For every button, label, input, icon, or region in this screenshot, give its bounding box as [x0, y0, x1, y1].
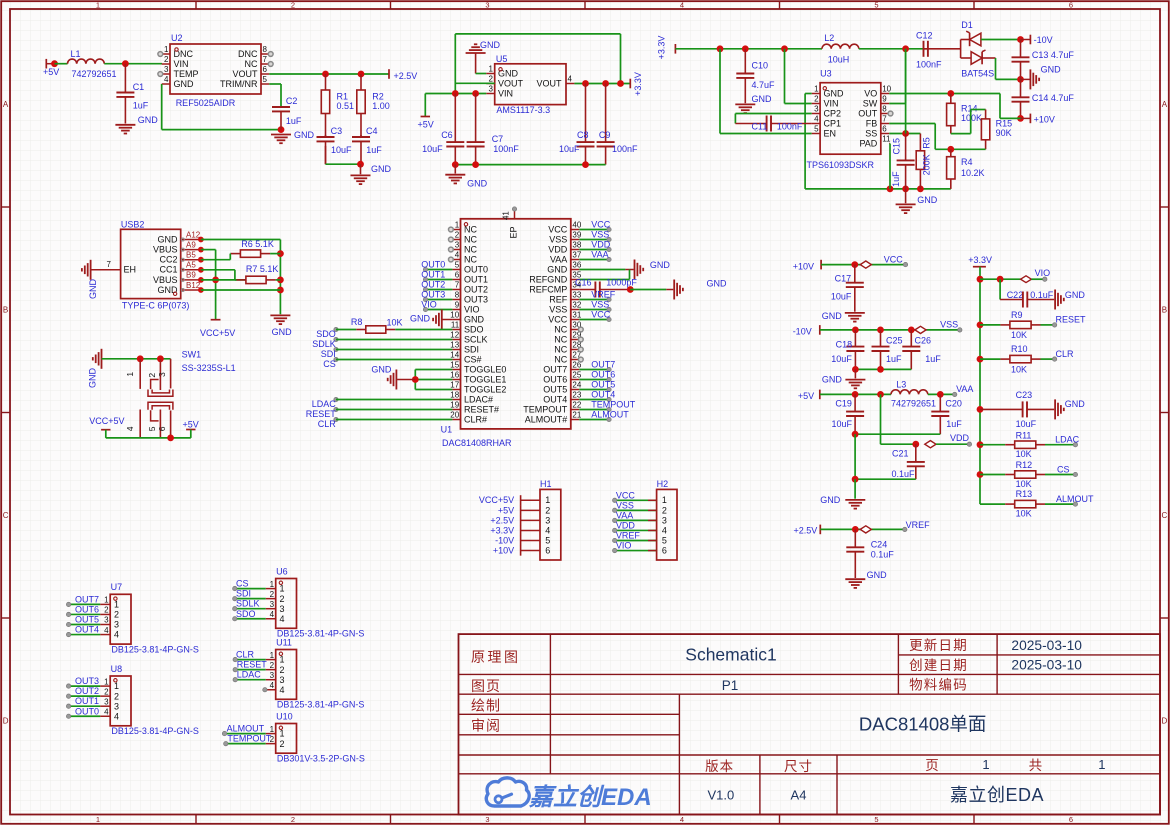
svg-text:B: B — [3, 306, 8, 315]
svg-text:1: 1 — [104, 677, 109, 686]
svg-text:3: 3 — [104, 697, 109, 706]
svg-text:2: 2 — [280, 594, 285, 604]
svg-text:10K: 10K — [1016, 449, 1032, 459]
svg-text:10uF: 10uF — [422, 144, 443, 154]
svg-text:C2: C2 — [286, 96, 298, 106]
svg-text:1000pF: 1000pF — [606, 278, 637, 288]
svg-text:C3: C3 — [331, 126, 343, 136]
svg-text:7: 7 — [263, 55, 268, 64]
svg-text:90K: 90K — [996, 128, 1012, 138]
svg-text:TEMPOUT: TEMPOUT — [591, 399, 636, 409]
svg-text:R11: R11 — [1016, 430, 1032, 440]
svg-text:CLR#: CLR# — [464, 414, 487, 424]
svg-text:1: 1 — [270, 651, 275, 660]
svg-text:7: 7 — [455, 281, 460, 290]
svg-text:OUT1: OUT1 — [75, 696, 99, 706]
svg-text:10: 10 — [882, 85, 891, 94]
svg-text:U2: U2 — [171, 33, 183, 43]
svg-text:+3.3V: +3.3V — [657, 36, 667, 60]
svg-text:A4: A4 — [791, 787, 807, 802]
svg-text:共: 共 — [1029, 758, 1043, 773]
svg-text:B9: B9 — [186, 271, 196, 280]
svg-text:GND: GND — [824, 88, 845, 98]
svg-text:GND: GND — [371, 164, 392, 174]
svg-text:3: 3 — [114, 701, 119, 711]
svg-text:VIO: VIO — [421, 299, 437, 309]
svg-text:OUT5: OUT5 — [75, 615, 99, 625]
svg-text:3: 3 — [157, 372, 167, 377]
svg-text:5: 5 — [545, 535, 550, 545]
svg-text:TRIM/NR: TRIM/NR — [220, 79, 258, 89]
svg-text:VREF: VREF — [906, 520, 931, 530]
svg-text:2: 2 — [104, 606, 109, 615]
svg-text:3: 3 — [164, 65, 169, 74]
svg-text:20: 20 — [450, 411, 459, 420]
svg-text:NC: NC — [554, 344, 567, 354]
svg-text:10: 10 — [450, 311, 459, 320]
svg-text:OUT3: OUT3 — [75, 676, 99, 686]
svg-text:R8: R8 — [351, 317, 363, 327]
svg-text:1uF: 1uF — [925, 354, 941, 364]
svg-text:36: 36 — [572, 261, 581, 270]
svg-text:7: 7 — [882, 115, 887, 124]
svg-text:VSS: VSS — [940, 319, 958, 329]
svg-text:R2: R2 — [372, 92, 384, 102]
svg-text:1: 1 — [662, 495, 667, 505]
svg-text:嘉立创EDA: 嘉立创EDA — [950, 785, 1044, 805]
svg-text:5: 5 — [874, 815, 878, 824]
svg-text:VBUS: VBUS — [153, 275, 178, 285]
svg-text:OUT7: OUT7 — [75, 594, 99, 604]
svg-text:REF5025AIDR: REF5025AIDR — [176, 98, 236, 108]
svg-text:C17: C17 — [835, 273, 852, 283]
svg-text:10uF: 10uF — [831, 292, 852, 302]
svg-text:ALMOUT: ALMOUT — [591, 409, 629, 419]
svg-text:+2.5V: +2.5V — [794, 525, 818, 535]
svg-text:ALMOUT: ALMOUT — [1056, 494, 1094, 504]
svg-text:L3: L3 — [896, 380, 906, 390]
svg-text:绘制: 绘制 — [471, 697, 501, 713]
svg-text:100nF: 100nF — [612, 144, 638, 154]
svg-text:742792651: 742792651 — [891, 399, 936, 409]
svg-text:23: 23 — [572, 391, 581, 400]
svg-text:22: 22 — [572, 401, 581, 410]
svg-text:21: 21 — [572, 411, 581, 420]
svg-text:+3.3V: +3.3V — [968, 255, 992, 265]
svg-text:VCC: VCC — [591, 309, 611, 319]
svg-text:GND: GND — [1065, 399, 1086, 409]
svg-text:C9: C9 — [599, 130, 611, 140]
svg-text:CLR: CLR — [1056, 349, 1075, 359]
svg-text:CC2: CC2 — [159, 255, 177, 265]
svg-text:11: 11 — [882, 135, 891, 144]
svg-text:NC: NC — [554, 354, 567, 364]
svg-text:REFGND: REFGND — [529, 274, 568, 284]
svg-text:1: 1 — [545, 495, 550, 505]
svg-text:1: 1 — [96, 815, 100, 824]
svg-text:原理图: 原理图 — [471, 649, 521, 665]
svg-text:R5: R5 — [922, 137, 932, 149]
svg-text:OUT4: OUT4 — [75, 625, 99, 635]
svg-text:页: 页 — [925, 758, 939, 773]
svg-text:5: 5 — [455, 261, 460, 270]
svg-text:GND: GND — [917, 195, 938, 205]
svg-text:1uF: 1uF — [366, 145, 382, 155]
svg-text:DAC81408RHAR: DAC81408RHAR — [442, 438, 512, 448]
svg-text:4: 4 — [270, 681, 275, 690]
svg-text:OUT0: OUT0 — [464, 264, 488, 274]
svg-text:2: 2 — [291, 1, 295, 10]
svg-text:TOGGLE1: TOGGLE1 — [464, 374, 506, 384]
svg-text:VAA: VAA — [956, 384, 973, 394]
svg-text:VSS: VSS — [616, 500, 634, 510]
svg-text:2: 2 — [280, 739, 285, 749]
svg-text:CS: CS — [1057, 464, 1070, 474]
svg-text:图页: 图页 — [471, 678, 501, 694]
svg-text:Schematic1: Schematic1 — [685, 645, 776, 665]
svg-text:SDI: SDI — [464, 344, 479, 354]
svg-text:CS: CS — [236, 579, 249, 589]
svg-text:NC: NC — [464, 254, 477, 264]
svg-text:C7: C7 — [492, 134, 504, 144]
svg-text:5: 5 — [662, 535, 667, 545]
svg-text:C14 4.7uF: C14 4.7uF — [1032, 93, 1075, 103]
svg-text:3: 3 — [489, 85, 494, 94]
svg-text:EN: EN — [824, 128, 837, 138]
svg-text:VOUT: VOUT — [536, 78, 562, 88]
svg-text:2: 2 — [270, 661, 275, 670]
svg-text:LDAC: LDAC — [237, 670, 262, 680]
svg-text:VDD: VDD — [591, 239, 611, 249]
svg-text:VIO: VIO — [464, 304, 480, 314]
svg-text:8: 8 — [263, 45, 268, 54]
svg-text:VO: VO — [864, 88, 877, 98]
svg-text:VIN: VIN — [174, 59, 189, 69]
svg-text:100nF: 100nF — [493, 144, 519, 154]
svg-text:NC: NC — [464, 244, 477, 254]
svg-text:2: 2 — [489, 75, 494, 84]
svg-text:1uF: 1uF — [286, 116, 302, 126]
svg-text:LDAC: LDAC — [1055, 435, 1080, 445]
svg-text:4: 4 — [104, 707, 109, 716]
svg-text:3: 3 — [270, 671, 275, 680]
svg-text:VBUS: VBUS — [153, 245, 178, 255]
svg-text:R12: R12 — [1016, 460, 1033, 470]
svg-text:版本: 版本 — [705, 759, 734, 774]
svg-text:GND: GND — [174, 79, 195, 89]
svg-text:OUT2: OUT2 — [421, 279, 445, 289]
svg-text:1uF: 1uF — [886, 354, 902, 364]
svg-text:L1: L1 — [71, 49, 81, 59]
svg-text:V1.0: V1.0 — [708, 787, 735, 802]
svg-text:ALMOUT: ALMOUT — [227, 724, 265, 734]
svg-text:CC1: CC1 — [159, 265, 177, 275]
svg-text:VCC: VCC — [884, 254, 904, 264]
svg-text:1: 1 — [164, 45, 169, 54]
svg-text:C23: C23 — [1016, 390, 1033, 400]
svg-text:DB301V-3.5-2P-GN-S: DB301V-3.5-2P-GN-S — [277, 754, 365, 764]
svg-text:9: 9 — [455, 301, 460, 310]
svg-text:GND: GND — [480, 40, 501, 50]
svg-text:32: 32 — [572, 301, 581, 310]
svg-text:GND: GND — [1041, 64, 1062, 74]
svg-text:C: C — [1162, 511, 1168, 520]
svg-text:2: 2 — [280, 665, 285, 675]
svg-text:37: 37 — [572, 251, 581, 260]
svg-text:R1: R1 — [337, 92, 349, 102]
svg-text:REFCMP: REFCMP — [529, 284, 567, 294]
svg-text:SDLK: SDLK — [312, 339, 336, 349]
svg-text:2: 2 — [455, 231, 460, 240]
svg-text:+3.3V: +3.3V — [633, 72, 643, 96]
svg-text:3: 3 — [485, 815, 489, 824]
svg-text:10uF: 10uF — [1016, 419, 1037, 429]
svg-text:C20: C20 — [945, 398, 962, 408]
svg-text:CLR: CLR — [318, 419, 337, 429]
svg-text:SW: SW — [863, 98, 878, 108]
svg-text:18: 18 — [450, 391, 459, 400]
svg-text:1: 1 — [270, 725, 275, 734]
svg-text:PAD: PAD — [859, 138, 877, 148]
svg-text:C13 4.7uF: C13 4.7uF — [1032, 50, 1075, 60]
svg-text:2: 2 — [545, 505, 550, 515]
svg-text:R4: R4 — [961, 157, 973, 167]
svg-text:B: B — [1162, 306, 1167, 315]
svg-text:0.1uF: 0.1uF — [1030, 290, 1054, 300]
svg-text:DNC: DNC — [238, 49, 258, 59]
svg-text:5: 5 — [263, 75, 268, 84]
svg-text:GND: GND — [707, 278, 728, 288]
svg-text:4.7uF: 4.7uF — [752, 80, 776, 90]
svg-text:OUT1: OUT1 — [464, 274, 488, 284]
svg-text:SDO: SDO — [464, 324, 484, 334]
svg-text:13: 13 — [450, 341, 459, 350]
svg-text:9: 9 — [882, 95, 887, 104]
svg-text:+5V: +5V — [498, 505, 514, 515]
svg-text:VDD: VDD — [950, 433, 970, 443]
svg-text:GND: GND — [272, 327, 293, 337]
svg-text:C15: C15 — [892, 138, 902, 155]
svg-text:VCC: VCC — [548, 224, 568, 234]
svg-text:EP: EP — [509, 226, 519, 238]
svg-text:3: 3 — [545, 515, 550, 525]
svg-text:TOGGLE0: TOGGLE0 — [464, 364, 506, 374]
svg-text:SDO: SDO — [316, 329, 336, 339]
svg-text:DAC81408单面: DAC81408单面 — [859, 713, 987, 734]
svg-text:LDAC: LDAC — [312, 399, 337, 409]
svg-text:VOUT: VOUT — [232, 69, 258, 79]
svg-text:10uF: 10uF — [831, 354, 852, 364]
svg-text:33: 33 — [572, 291, 581, 300]
svg-text:VSS: VSS — [591, 229, 609, 239]
svg-text:C10: C10 — [752, 60, 769, 70]
svg-text:OUT: OUT — [858, 108, 878, 118]
svg-text:16: 16 — [450, 371, 459, 380]
svg-text:15: 15 — [450, 361, 459, 370]
svg-text:C22: C22 — [1007, 290, 1024, 300]
svg-text:U3: U3 — [820, 69, 832, 79]
svg-text:VIN: VIN — [824, 98, 839, 108]
svg-text:0.1uF: 0.1uF — [892, 469, 916, 479]
svg-text:0.51: 0.51 — [337, 101, 355, 111]
svg-text:C: C — [3, 511, 9, 520]
svg-text:H2: H2 — [657, 479, 669, 489]
svg-text:TPS61093DSKR: TPS61093DSKR — [807, 160, 875, 170]
svg-text:OUT6: OUT6 — [75, 604, 99, 614]
svg-text:U7: U7 — [111, 582, 123, 592]
svg-text:TEMP: TEMP — [174, 69, 199, 79]
svg-text:物料编码: 物料编码 — [909, 677, 968, 692]
svg-text:1.00: 1.00 — [372, 101, 390, 111]
svg-text:4: 4 — [164, 75, 169, 84]
svg-text:2: 2 — [814, 95, 819, 104]
svg-text:GND: GND — [1065, 290, 1086, 300]
svg-text:GND: GND — [867, 570, 888, 580]
svg-text:4: 4 — [104, 626, 109, 635]
svg-text:VREF: VREF — [616, 531, 641, 541]
svg-text:3: 3 — [455, 241, 460, 250]
svg-text:R13: R13 — [1016, 489, 1033, 499]
svg-text:+10V: +10V — [1034, 114, 1055, 124]
svg-text:6: 6 — [1069, 815, 1073, 824]
svg-text:VCC: VCC — [616, 490, 636, 500]
svg-text:OUT6: OUT6 — [543, 374, 567, 384]
svg-text:CP2: CP2 — [824, 108, 842, 118]
svg-text:8: 8 — [882, 105, 887, 114]
svg-text:+2.5V: +2.5V — [394, 71, 418, 81]
svg-text:GND: GND — [822, 374, 843, 384]
svg-text:C8: C8 — [577, 130, 589, 140]
svg-text:6: 6 — [1069, 1, 1073, 10]
svg-text:SCLK: SCLK — [464, 334, 488, 344]
svg-text:38: 38 — [572, 241, 581, 250]
svg-text:VSS: VSS — [591, 299, 609, 309]
svg-text:4: 4 — [270, 610, 275, 619]
svg-text:17: 17 — [450, 381, 459, 390]
svg-text:R7 5.1K: R7 5.1K — [246, 264, 279, 274]
svg-text:100nF: 100nF — [777, 122, 803, 132]
svg-text:NC: NC — [245, 59, 258, 69]
svg-text:2: 2 — [147, 373, 157, 378]
svg-text:742792651: 742792651 — [72, 69, 117, 79]
svg-text:U6: U6 — [276, 566, 288, 576]
svg-text:C21: C21 — [892, 448, 909, 458]
svg-text:L2: L2 — [824, 33, 834, 43]
svg-text:D: D — [3, 717, 9, 726]
svg-text:GND: GND — [158, 285, 179, 295]
svg-text:31: 31 — [572, 311, 581, 320]
svg-text:VCC+5V: VCC+5V — [89, 416, 124, 426]
svg-text:BAT54S: BAT54S — [961, 69, 994, 79]
svg-text:嘉立创EDA: 嘉立创EDA — [528, 784, 652, 811]
svg-text:R15: R15 — [996, 119, 1013, 129]
svg-text:D1: D1 — [961, 20, 973, 30]
svg-text:C12: C12 — [916, 30, 933, 40]
svg-text:-10V: -10V — [793, 327, 812, 337]
svg-text:5: 5 — [814, 125, 819, 134]
svg-text:4: 4 — [280, 614, 285, 624]
svg-text:1: 1 — [814, 85, 819, 94]
svg-text:10.2K: 10.2K — [961, 168, 985, 178]
svg-text:2025-03-10: 2025-03-10 — [1011, 638, 1082, 653]
svg-text:8: 8 — [455, 291, 460, 300]
svg-text:3: 3 — [814, 105, 819, 114]
svg-text:VOUT: VOUT — [498, 78, 524, 88]
svg-text:4: 4 — [545, 525, 550, 535]
svg-text:ALMOUT#: ALMOUT# — [525, 414, 568, 424]
svg-text:A: A — [3, 100, 9, 109]
svg-text:RESET: RESET — [237, 660, 268, 670]
svg-text:+3.3V: +3.3V — [490, 525, 514, 535]
svg-text:GND: GND — [138, 115, 159, 125]
svg-text:4: 4 — [114, 630, 119, 640]
svg-text:40: 40 — [572, 221, 581, 230]
svg-text:+2.5V: +2.5V — [490, 515, 514, 525]
svg-text:尺寸: 尺寸 — [784, 759, 813, 774]
svg-text:DB125-3.81-4P-GN-S: DB125-3.81-4P-GN-S — [111, 726, 199, 736]
svg-text:10uF: 10uF — [559, 144, 580, 154]
svg-text:100nF: 100nF — [916, 59, 942, 69]
svg-text:OUT2: OUT2 — [75, 686, 99, 696]
svg-text:1uF: 1uF — [891, 171, 901, 187]
svg-text:OUT4: OUT4 — [543, 394, 567, 404]
svg-text:创建日期: 创建日期 — [909, 658, 968, 673]
svg-text:DB125-3.81-4P-GN-S: DB125-3.81-4P-GN-S — [277, 700, 365, 710]
svg-text:TYPE-C 6P(073): TYPE-C 6P(073) — [122, 301, 190, 311]
svg-text:GND: GND — [158, 234, 179, 244]
svg-text:1: 1 — [114, 600, 119, 610]
svg-text:12: 12 — [450, 331, 459, 340]
svg-text:2: 2 — [114, 691, 119, 701]
svg-text:7: 7 — [107, 260, 112, 269]
svg-text:0.1uF: 0.1uF — [871, 549, 895, 559]
svg-text:10uH: 10uH — [828, 55, 850, 65]
svg-text:1: 1 — [270, 580, 275, 589]
svg-text:2: 2 — [662, 505, 667, 515]
svg-text:C18: C18 — [836, 339, 853, 349]
svg-text:H1: H1 — [540, 479, 552, 489]
svg-text:SS: SS — [865, 128, 877, 138]
svg-text:10uF: 10uF — [832, 419, 853, 429]
svg-text:6: 6 — [882, 125, 887, 134]
svg-text:25: 25 — [572, 371, 581, 380]
svg-text:4: 4 — [680, 1, 684, 10]
svg-text:SDO: SDO — [236, 609, 256, 619]
svg-text:GND: GND — [752, 94, 773, 104]
svg-text:GND: GND — [294, 130, 315, 140]
svg-text:24: 24 — [572, 381, 581, 390]
svg-text:4: 4 — [455, 251, 460, 260]
svg-text:C24: C24 — [871, 540, 888, 550]
svg-text:2: 2 — [291, 815, 295, 824]
svg-text:OUT0: OUT0 — [75, 706, 99, 716]
svg-text:VIO: VIO — [616, 541, 632, 551]
svg-text:NC: NC — [464, 234, 477, 244]
svg-text:DNC: DNC — [174, 49, 194, 59]
svg-text:200K: 200K — [922, 154, 932, 175]
svg-text:VCC: VCC — [591, 219, 611, 229]
svg-text:GND: GND — [822, 311, 843, 321]
svg-text:AMS1117-3.3: AMS1117-3.3 — [496, 105, 550, 115]
svg-text:3: 3 — [662, 515, 667, 525]
svg-text:1: 1 — [489, 65, 494, 74]
svg-text:VDD: VDD — [616, 520, 636, 530]
svg-text:-10V: -10V — [495, 535, 514, 545]
svg-text:2: 2 — [104, 687, 109, 696]
svg-text:1: 1 — [1098, 757, 1105, 772]
svg-text:A9: A9 — [186, 240, 196, 249]
svg-text:C19: C19 — [835, 398, 852, 408]
